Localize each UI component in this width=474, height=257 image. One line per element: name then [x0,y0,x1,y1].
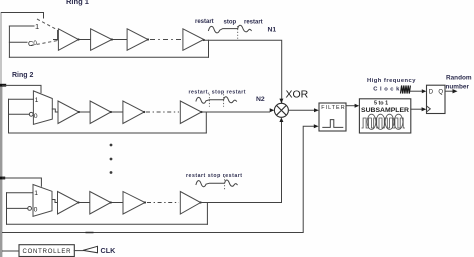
inverter ring1-3 [127,29,148,51]
inverter ring2-1 [58,101,79,124]
inverter bubble on input 0 [29,112,33,116]
multiplexer M2 [33,91,52,124]
wire: ring1 output drop to feedback [208,40,210,57]
controller U5 [19,245,74,257]
node: ring2 apex junctions [78,111,80,113]
wire: XOR output to filter [288,109,314,111]
svg-text:Ring 1: Ring 1 [66,0,89,6]
XOR gate U1 [274,103,288,117]
svg-text:1: 1 [34,190,38,197]
wire: ring1 feedback left vertical [8,26,10,57]
inverter ring3-2 [90,192,111,215]
svg-text:1: 1 [35,22,39,31]
wire: controller input [3,250,20,252]
wire: ring2 top select line [3,85,42,92]
wire: mux M1 output stub [54,39,59,41]
wire: ring3 feedback left vertical [6,193,8,225]
wire: ring3 top select line [3,178,42,186]
wire [111,202,123,204]
wire [112,39,127,41]
svg-text:restart: restart [195,19,214,25]
svg-text:restart: restart [244,19,263,25]
svg-text:1: 1 [35,97,39,104]
wire: dashed continuation [146,111,179,113]
svg-text:Clock: Clock [373,86,400,92]
wire: ring3 input 0 [7,207,28,209]
wire: clock to flipflop [411,90,422,92]
wire: ring1 input C0 [9,41,27,43]
icon: clk triangle [83,246,98,253]
waveform ring1 restart/stop [209,25,252,33]
wire: dashed continuation [147,202,179,204]
arrowhead into filter input 1 [314,108,319,112]
svg-text:Q: Q [438,90,443,96]
svg-text:Ring 2: Ring 2 [12,72,33,79]
arrowhead into XOR bottom [279,117,283,122]
wire: ring2 input 0 [9,113,30,115]
wire: ring2 input 1 [9,98,34,100]
svg-text:restart, stop restart: restart, stop restart [189,90,246,96]
node: ring3 junction on bus [0,177,5,180]
svg-text:XOR: XOR [286,89,309,101]
wire: ring3 input 1 [7,192,34,194]
svg-text:D: D [429,90,434,96]
wire: ring1 input 1 [9,25,34,27]
wire: ring3 dotted marker [224,176,226,190]
D flip-flop U4 [427,85,446,113]
svg-text:N2: N2 [256,96,265,103]
waveform ring2 restart/stop [196,97,237,104]
svg-text:C0: C0 [28,39,37,48]
inverter ring2-4 [180,101,201,124]
wire: ring3 output drop [206,203,208,225]
svg-text:FILTER: FILTER [321,105,344,111]
wire [79,39,91,41]
wire: left vertical control bus [0,12,2,84]
node: ring3 apex junctions [77,201,79,203]
wire: bus thick mark [86,232,94,234]
inverter ring3-1 [58,192,79,215]
arrowhead into flipflop clk [422,89,427,93]
arrowhead into filter input 2 [314,124,319,128]
inverter ring1-4 [183,29,204,51]
filter U2 [319,103,346,131]
svg-text:SUBSAMPLER: SUBSAMPLER [361,107,409,114]
svg-text:5 to 1: 5 to 1 [374,100,388,106]
inverter bubble on input 0 [28,207,32,211]
wire [79,111,90,113]
icon: clock waveform [401,86,411,94]
svg-text:Random: Random [446,74,472,81]
arrowhead output [453,89,458,93]
icon: pulse [323,120,343,128]
node: ellipsis dots between rings [110,144,113,147]
svg-text:N1: N1 [268,27,277,34]
arrowhead into flipflop D2 [422,107,427,111]
wire: flipflop output [445,90,453,92]
svg-text:CONTROLLER: CONTROLLER [23,249,72,255]
svg-text:CLK: CLK [101,246,117,255]
wire: ring2 output drop [205,112,207,133]
wire [79,202,90,204]
wire: dashed continuation [150,39,182,41]
wire: ring1 dotted marker [237,26,239,39]
arrowhead into subsampler [355,104,360,108]
multiplexer M1 (dashed) [31,19,58,46]
wire: ring2 feedback bottom [9,132,207,134]
svg-text:restart stop restart: restart stop restart [186,173,242,179]
wire: controller clk stub [74,250,83,252]
svg-text:0: 0 [34,207,38,214]
wire: ring3 feedback bottom [7,223,208,225]
arrowhead into XOR left [270,108,275,112]
icon: sample circles [367,114,403,129]
svg-text:number: number [446,84,470,91]
inverter ring2-3 [123,101,144,124]
wire [111,111,123,113]
svg-text:0: 0 [34,113,38,120]
wire: ring2 feedback left vertical [8,99,10,133]
svg-text:High frequency: High frequency [367,78,416,84]
multiplexer M3 [33,185,52,217]
wire: controller bus to filter [3,126,314,232]
wire: mux M2 output [52,109,58,112]
icon: clock chevron [427,106,431,112]
subsampler U3 [359,99,410,133]
wire: ring1 feedback bottom [9,56,208,58]
inverter ring1-2 [91,29,112,51]
wire: ring3 output to XOR bottom [201,122,282,202]
wire: ring1 top select line [2,13,44,19]
wire: N1 output to XOR top [204,40,282,103]
arrowhead into XOR top [279,99,283,104]
node: ring2 junction on bus [0,84,6,87]
waveform ring3 restart/stop [196,180,237,187]
icon: pulse train [362,118,405,128]
wire: filter to subsampler [346,105,355,107]
node: ring1 apex junctions [77,38,79,40]
svg-text:stop: stop [224,19,237,25]
inverter ring3-3 [123,192,145,215]
wire: mux M3 output [52,200,58,203]
inverter ring2-2 [90,101,111,124]
wire: subsampler to flipflop [411,108,422,110]
inverter ring3-4 [180,192,200,215]
wire: N2 output to XOR left [202,111,270,113]
inverter ring1-1 [58,29,78,51]
wire: ring2 dotted markers [208,94,210,107]
